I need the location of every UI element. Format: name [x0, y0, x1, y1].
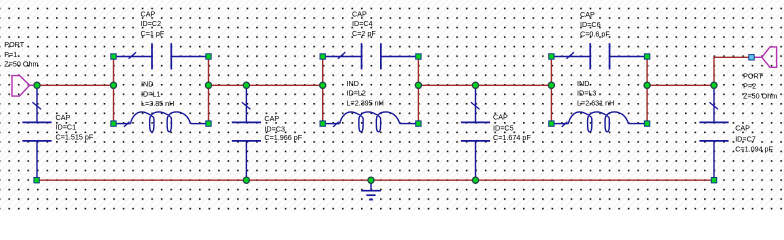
svg-text:Z=50 Ohm: Z=50 Ohm	[4, 60, 38, 69]
wire port1 to tank1	[37, 84, 114, 86]
ground	[361, 180, 381, 199]
wire tank2 to tank3	[418, 84, 551, 86]
node square top-left of tank C2	[111, 54, 116, 59]
inductor L3	[554, 79, 645, 132]
svg-text:C=1.674 pF: C=1.674 pF	[493, 133, 531, 142]
svg-text:C=0.6 pF: C=0.6 pF	[580, 30, 610, 39]
inductor L2	[325, 79, 416, 132]
svg-text:C=1.515 pF: C=1.515 pF	[56, 132, 94, 141]
node ground	[368, 177, 374, 183]
svg-text:PORT: PORT	[743, 72, 763, 81]
svg-text:ID=L3: ID=L3	[577, 89, 596, 98]
wire tank1 to tank2	[209, 84, 323, 86]
port P2	[743, 47, 777, 100]
svg-text:IND: IND	[577, 79, 589, 88]
node tank1 right	[205, 82, 211, 88]
node tank1 left	[110, 82, 116, 88]
svg-text:ID=C5: ID=C5	[493, 124, 514, 133]
port P1	[4, 40, 38, 96]
node square top-right of tank C4	[416, 54, 421, 59]
node square bus left end (C1 pin)	[34, 178, 39, 183]
svg-text:ID=C1: ID=C1	[56, 123, 77, 132]
svg-text:ID=C2: ID=C2	[141, 19, 162, 28]
node C3 top	[243, 82, 249, 88]
node C5 bottom	[472, 177, 478, 183]
capacitor C5	[461, 85, 531, 180]
svg-text:L=3.85 nH: L=3.85 nH	[141, 99, 174, 108]
svg-text:IND: IND	[141, 80, 153, 89]
svg-text:ID=L2: ID=L2	[347, 89, 366, 98]
node square bottom-left of tank L2	[320, 121, 325, 126]
svg-text:P=1: P=1	[4, 50, 17, 59]
node C5 top	[472, 82, 478, 88]
node C3 bottom	[243, 177, 249, 183]
node square bottom-right of tank L3	[644, 121, 649, 126]
wire vertical right of C6/L3 tank	[646, 57, 648, 124]
wire vertical left of C2/L1 tank	[113, 57, 115, 124]
node square bottom-left of tank L3	[549, 121, 554, 126]
wire ground bus	[37, 179, 714, 181]
svg-text:P=2: P=2	[743, 82, 756, 91]
svg-text:IND: IND	[347, 79, 359, 88]
svg-text:ID=C6: ID=C6	[580, 20, 601, 29]
svg-text:CAP: CAP	[580, 10, 595, 19]
node square bottom-right of tank L1	[206, 121, 211, 126]
node square bottom-right of tank L2	[416, 121, 421, 126]
inductor L1	[116, 80, 206, 132]
capacitor C1	[22, 85, 93, 180]
node square bottom-left of tank L1	[111, 121, 116, 126]
svg-text:CAP: CAP	[264, 114, 279, 123]
svg-text:ID=C7: ID=C7	[735, 134, 756, 143]
node tank3 right	[644, 82, 650, 88]
node square top-right of tank C2	[206, 54, 211, 59]
node square top-left of tank C6	[549, 54, 554, 59]
capacitor C2	[116, 9, 206, 69]
wire port2 riser	[714, 57, 749, 85]
svg-text:ID=C4: ID=C4	[352, 19, 373, 28]
capacitor C4	[325, 9, 416, 69]
capacitor C6	[554, 10, 645, 69]
wire handle square port2	[749, 55, 754, 60]
node square bus right end (C7 pin)	[711, 178, 716, 183]
svg-text:CAP: CAP	[56, 113, 71, 122]
svg-text:L=2.395 nH: L=2.395 nH	[347, 98, 384, 107]
node port2	[711, 82, 717, 88]
capacitor C7	[699, 85, 773, 180]
svg-text:L=2.631 nH: L=2.631 nH	[577, 98, 614, 107]
svg-text:C=1.966 pF: C=1.966 pF	[264, 133, 302, 142]
svg-text:Z=50 Ohm: Z=50 Ohm	[743, 91, 777, 100]
node tank2 left	[320, 82, 326, 88]
node tank2 right	[415, 82, 421, 88]
svg-text:CAP: CAP	[735, 124, 750, 133]
node port1	[34, 82, 40, 88]
node square top-right of tank C6	[644, 54, 649, 59]
capacitor C3	[232, 85, 303, 180]
wire vertical left of C4/L2 tank	[322, 57, 324, 124]
svg-text:C=1 pF: C=1 pF	[141, 29, 165, 38]
svg-text:ID=L1: ID=L1	[141, 89, 160, 98]
svg-text:C=2 pF: C=2 pF	[352, 29, 376, 38]
wire tank3 to port2	[647, 84, 714, 86]
svg-text:ID=C3: ID=C3	[264, 124, 285, 133]
svg-text:CAP: CAP	[352, 9, 367, 18]
wire vertical right of C4/L2 tank	[417, 57, 419, 124]
svg-text:CAP: CAP	[493, 113, 508, 122]
wire vertical right of C2/L1 tank	[208, 57, 210, 124]
svg-text:C=1.094 pF: C=1.094 pF	[735, 144, 773, 153]
node square top-left of tank C4	[320, 54, 325, 59]
wire vertical left of C6/L3 tank	[550, 57, 552, 124]
node tank3 left	[548, 82, 554, 88]
svg-text:CAP: CAP	[141, 9, 156, 18]
svg-text:PORT: PORT	[4, 40, 24, 49]
